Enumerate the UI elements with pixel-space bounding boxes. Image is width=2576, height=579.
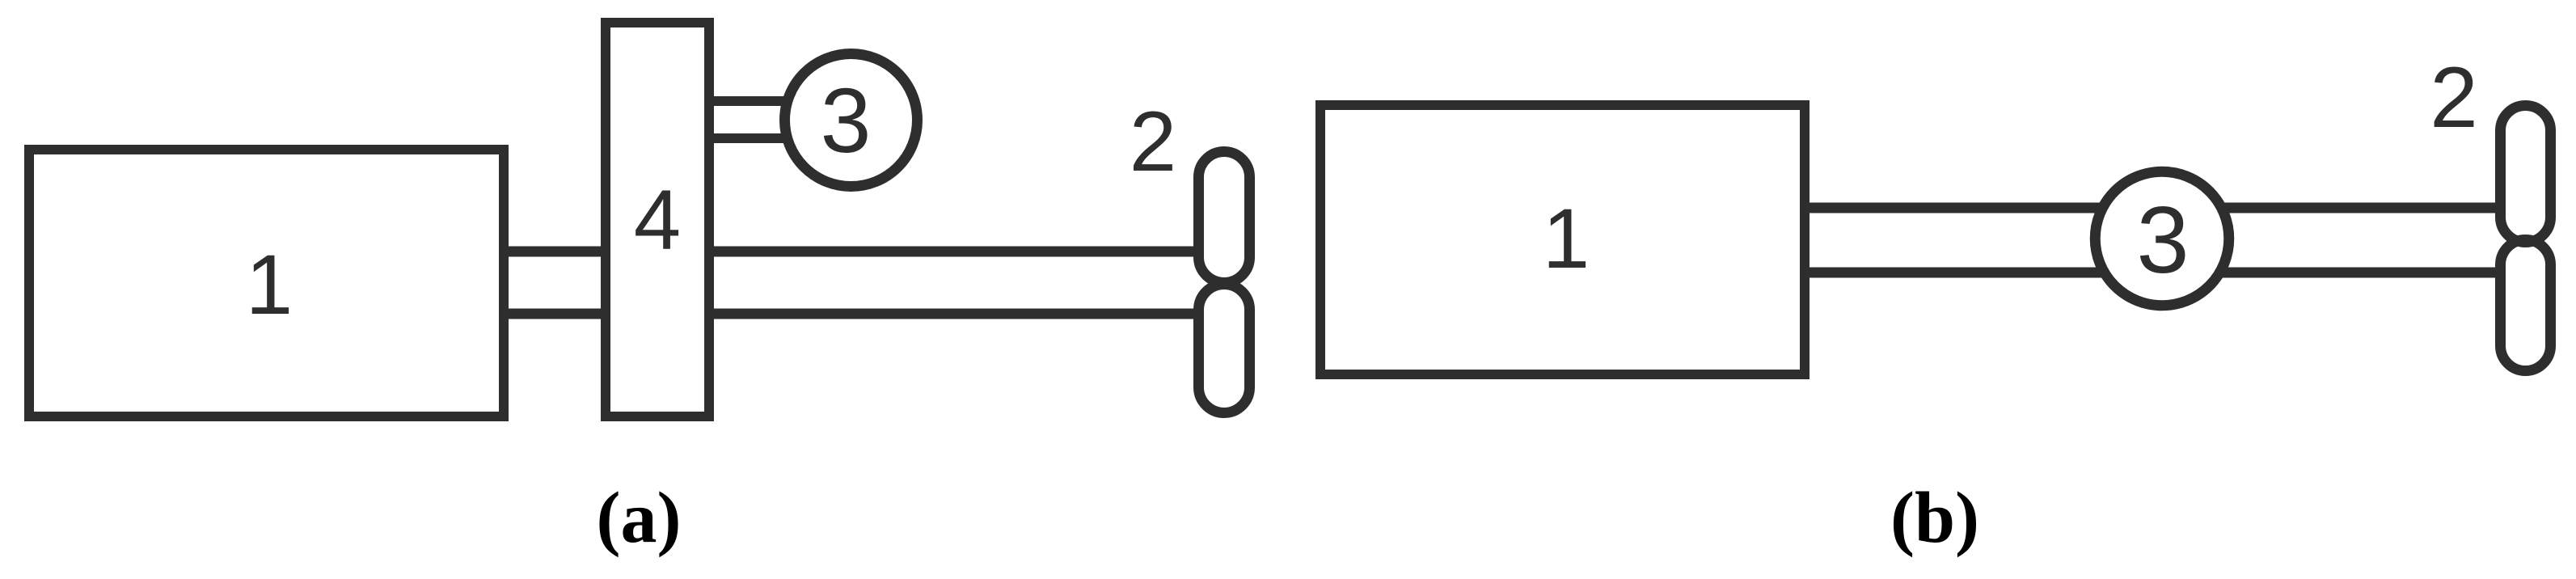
engine block 1 (b) [1320, 105, 1805, 374]
wire: gearbox to generator upper link (a) [704, 96, 792, 106]
wire: gearbox to propeller lower shaft line (a) [704, 309, 1224, 319]
propeller 2 blades fill (a) [1199, 152, 1250, 413]
gearbox 4 (a) [606, 23, 709, 416]
propeller 2 bottom blade outline (a) [1199, 285, 1250, 413]
svg-text:(b): (b) [1890, 478, 1979, 558]
wire: engine to propeller lower shaft line (b) [1805, 268, 2525, 278]
svg-text:3: 3 [2136, 187, 2189, 293]
wire: engine to gearbox upper shaft line (a) [504, 247, 610, 257]
svg-text:1: 1 [1543, 192, 1590, 286]
svg-text:1: 1 [246, 238, 293, 332]
shaft generator circle 3 (b) [2095, 171, 2229, 306]
propeller 2 top blade outline (b) [2501, 106, 2551, 243]
svg-text:3: 3 [821, 70, 872, 171]
svg-text:4: 4 [634, 173, 681, 268]
propeller 2 bottom blade outline (b) [2501, 240, 2551, 371]
svg-text:2: 2 [1130, 95, 1176, 189]
svg-text:(a): (a) [597, 478, 682, 558]
propeller 2 top blade outline (a) [1199, 152, 1250, 283]
svg-text:2: 2 [2430, 49, 2478, 146]
wire: gearbox to generator lower link (a) [704, 133, 792, 143]
wire: gearbox to propeller upper shaft line (a) [704, 247, 1224, 257]
engine block 1 (a) [29, 150, 504, 416]
wire: engine to gearbox lower shaft line (a) [504, 309, 610, 319]
propeller 2 blades fill (b) [2501, 106, 2551, 371]
wire: engine to propeller upper shaft line (b) [1805, 203, 2525, 213]
generator circle 3 (a) [785, 54, 918, 187]
